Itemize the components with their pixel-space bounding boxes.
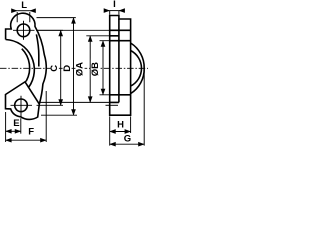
dim I arrows <box>106 10 110 12</box>
section bore lines <box>110 41 131 95</box>
dim OA extension lines <box>100 41 110 95</box>
section step vertical <box>118 19 120 102</box>
dim G line <box>110 143 145 145</box>
dim D line <box>73 18 75 116</box>
bore arc A (front view) <box>6 40 35 88</box>
dim H line <box>110 131 131 133</box>
svg-text:ØB: ØB <box>90 62 101 76</box>
bottom bolt hole <box>15 99 28 112</box>
bore arc B (front view) <box>22 49 30 81</box>
svg-text:H: H <box>117 119 124 130</box>
dim E extension lines <box>6 112 21 142</box>
svg-text:F: F <box>28 127 34 138</box>
svg-text:ØA: ØA <box>75 62 86 76</box>
section body outline <box>110 16 131 116</box>
label D <box>63 63 72 73</box>
svg-text:L: L <box>21 0 27 11</box>
section pilot step lines <box>110 36 119 103</box>
dim F line <box>6 139 47 141</box>
section lug silhouette inner arc <box>131 51 142 87</box>
bottom bolt hole centerlines <box>11 96 33 117</box>
dim C extension lines <box>37 30 64 105</box>
flange half outline (front view) <box>6 13 47 119</box>
section lug silhouette outer arc <box>131 43 145 94</box>
top bolt hole <box>17 24 30 37</box>
label OB <box>91 59 100 80</box>
top bolt hole centerlines <box>13 21 35 40</box>
dim F extension line <box>45 91 47 142</box>
dim OA line <box>102 41 104 95</box>
dim OB extension lines <box>39 36 110 103</box>
dim G extension lines <box>110 70 145 145</box>
dim L arrows <box>12 10 17 12</box>
label C <box>51 64 59 74</box>
dim I extension lines <box>110 11 119 15</box>
interlock step edge top <box>36 34 38 66</box>
dim E line <box>6 130 21 132</box>
dim C line <box>60 30 62 105</box>
svg-text:I: I <box>113 0 116 10</box>
dim OB line <box>89 36 91 103</box>
horizontal centerline <box>0 67 51 69</box>
dim H extension line <box>130 116 132 133</box>
svg-text:C: C <box>49 65 60 72</box>
interlock step edge bottom <box>25 82 39 104</box>
section hole centerline bottom <box>106 104 119 106</box>
section hole centerline top <box>36 29 131 31</box>
section hole centerline top (in-body thick) <box>110 29 131 31</box>
svg-text:G: G <box>124 133 131 144</box>
svg-text:D: D <box>62 65 73 72</box>
svg-text:E: E <box>13 118 19 129</box>
label OA <box>75 59 84 80</box>
dim D extension lines <box>37 18 78 116</box>
dim L extension lines <box>17 12 30 22</box>
